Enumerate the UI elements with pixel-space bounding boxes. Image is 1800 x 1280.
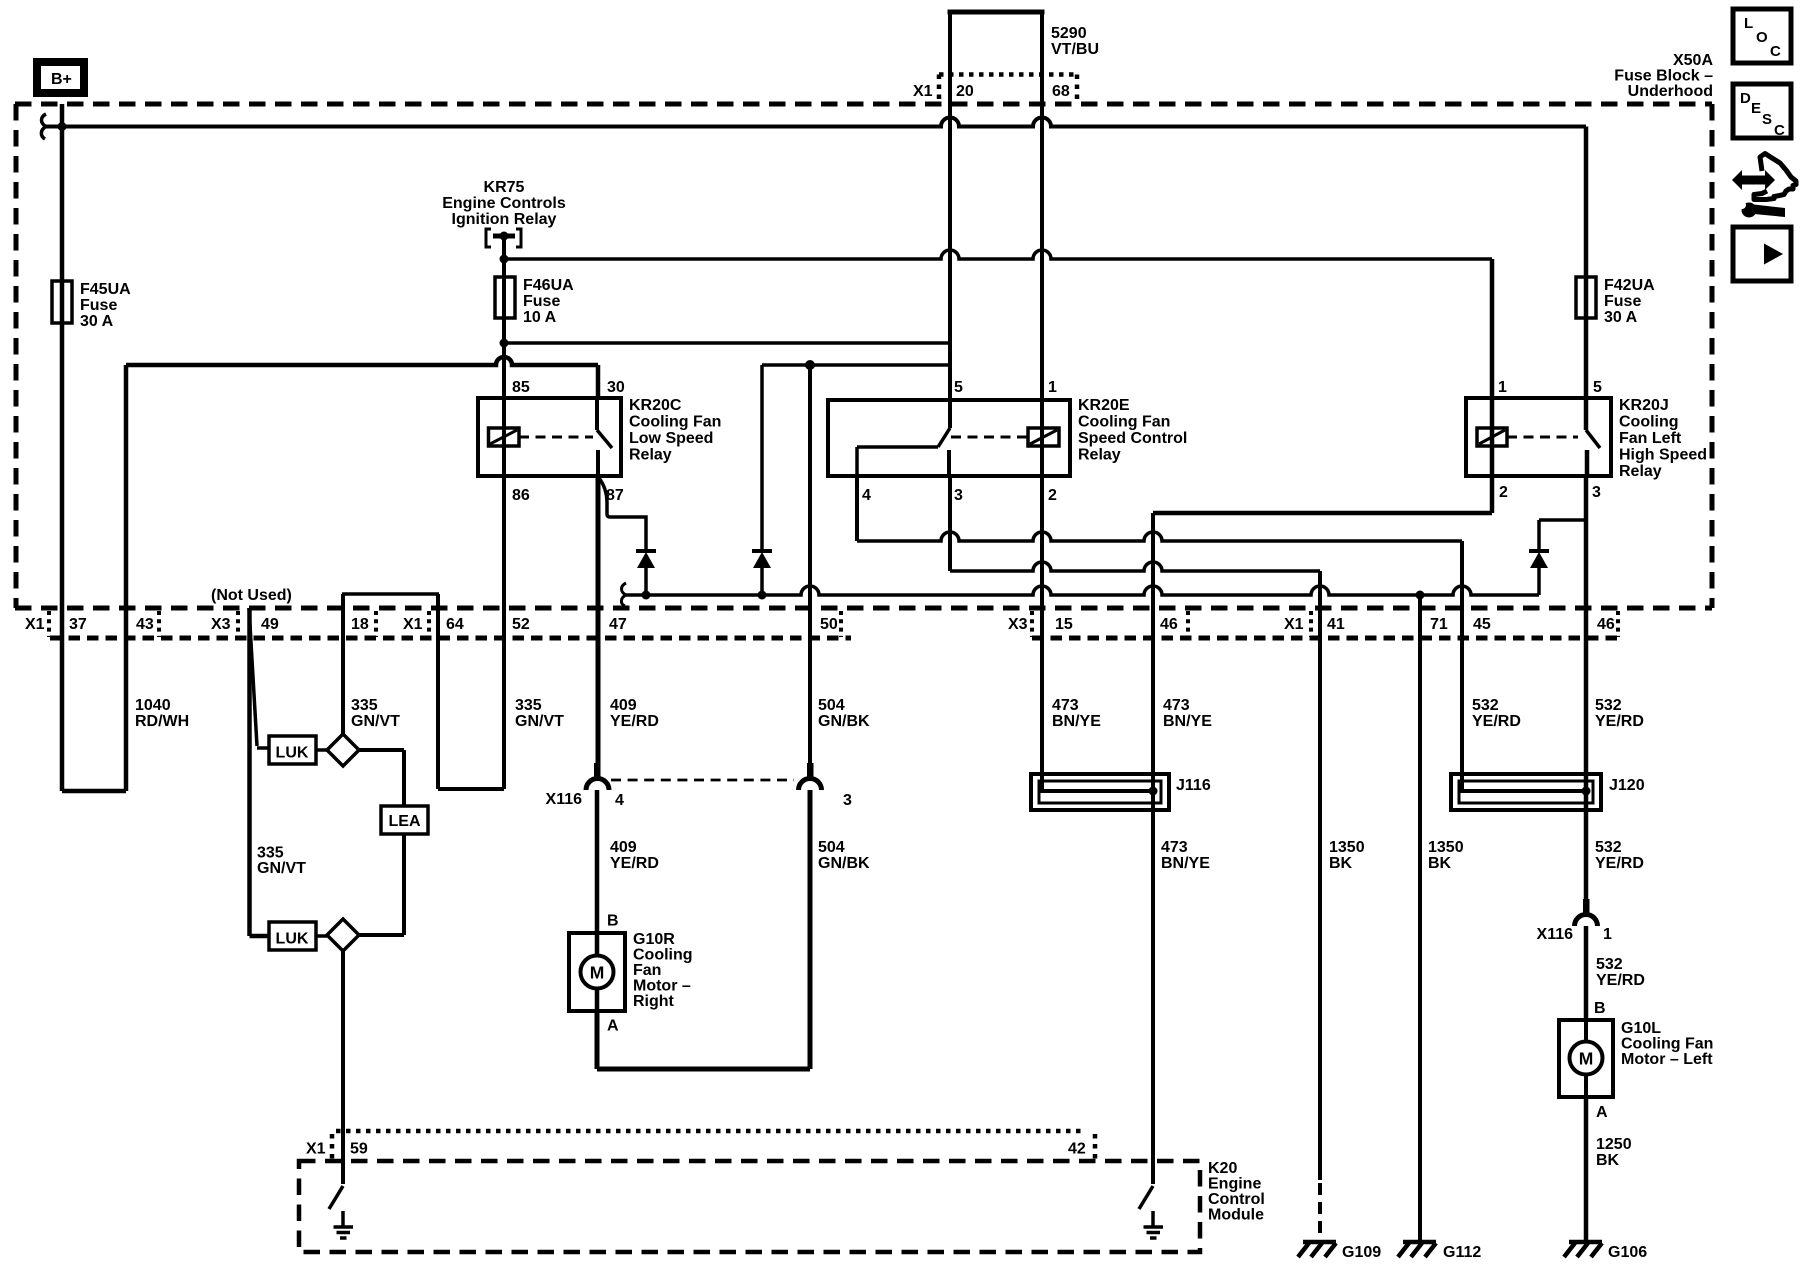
svg-text:473: 473 bbox=[1163, 697, 1190, 714]
svg-text:S: S bbox=[1762, 111, 1772, 128]
svg-text:KR20J: KR20J bbox=[1619, 397, 1669, 414]
svg-text:K20: K20 bbox=[1208, 1160, 1237, 1177]
svg-text:30: 30 bbox=[607, 379, 625, 396]
svg-text:49: 49 bbox=[261, 616, 279, 633]
svg-text:X50A: X50A bbox=[1673, 52, 1713, 69]
svg-text:X1: X1 bbox=[403, 616, 423, 633]
svg-text:45: 45 bbox=[1473, 616, 1491, 633]
svg-text:68: 68 bbox=[1052, 83, 1070, 100]
svg-text:18: 18 bbox=[351, 616, 369, 633]
svg-text:1: 1 bbox=[1498, 379, 1507, 396]
svg-text:Fan Left: Fan Left bbox=[1619, 430, 1682, 447]
svg-text:RD/WH: RD/WH bbox=[135, 713, 189, 730]
svg-text:LUK: LUK bbox=[276, 931, 309, 948]
svg-text:87: 87 bbox=[606, 487, 624, 504]
svg-text:GN/VT: GN/VT bbox=[257, 860, 306, 877]
svg-text:BK: BK bbox=[1596, 1152, 1620, 1169]
svg-text:71: 71 bbox=[1430, 616, 1448, 633]
svg-text:D: D bbox=[1740, 90, 1751, 107]
svg-text:Motor – Left: Motor – Left bbox=[1621, 1051, 1713, 1068]
svg-text:50: 50 bbox=[820, 616, 838, 633]
svg-text:YE/RD: YE/RD bbox=[610, 855, 659, 872]
svg-text:BN/YE: BN/YE bbox=[1163, 713, 1212, 730]
svg-text:532: 532 bbox=[1596, 956, 1623, 973]
svg-text:46: 46 bbox=[1160, 616, 1178, 633]
svg-text:B: B bbox=[607, 913, 619, 930]
svg-text:B: B bbox=[1594, 1000, 1606, 1017]
svg-text:GN/BK: GN/BK bbox=[818, 713, 870, 730]
svg-text:409: 409 bbox=[610, 839, 637, 856]
svg-text:30 A: 30 A bbox=[80, 313, 114, 330]
svg-text:335: 335 bbox=[351, 697, 378, 714]
svg-text:Low Speed: Low Speed bbox=[629, 430, 713, 447]
svg-text:X1: X1 bbox=[25, 616, 45, 633]
svg-text:335: 335 bbox=[515, 697, 542, 714]
svg-text:M: M bbox=[590, 963, 605, 983]
svg-text:532: 532 bbox=[1595, 697, 1622, 714]
svg-text:F46UA: F46UA bbox=[523, 277, 574, 294]
svg-text:BN/YE: BN/YE bbox=[1161, 855, 1210, 872]
svg-text:1350: 1350 bbox=[1428, 839, 1464, 856]
svg-text:KR75: KR75 bbox=[484, 179, 525, 196]
svg-text:KR20E: KR20E bbox=[1078, 397, 1130, 414]
svg-text:41: 41 bbox=[1327, 616, 1345, 633]
svg-text:LUK: LUK bbox=[276, 745, 309, 762]
svg-text:Ignition Relay: Ignition Relay bbox=[452, 211, 557, 228]
svg-text:(Not Used): (Not Used) bbox=[211, 587, 292, 604]
svg-text:Underhood: Underhood bbox=[1628, 83, 1713, 100]
svg-text:59: 59 bbox=[350, 1141, 368, 1158]
svg-text:Fuse: Fuse bbox=[80, 297, 117, 314]
svg-text:YE/RD: YE/RD bbox=[1596, 972, 1645, 989]
svg-text:X116: X116 bbox=[1537, 926, 1574, 943]
svg-text:1250: 1250 bbox=[1596, 1136, 1632, 1153]
svg-text:C: C bbox=[1770, 43, 1781, 60]
svg-text:BN/YE: BN/YE bbox=[1052, 713, 1101, 730]
svg-text:52: 52 bbox=[512, 616, 530, 633]
svg-text:2: 2 bbox=[1499, 484, 1508, 501]
svg-text:F45UA: F45UA bbox=[80, 281, 131, 298]
svg-text:L: L bbox=[1744, 15, 1753, 32]
svg-text:64: 64 bbox=[446, 616, 464, 633]
svg-text:YE/RD: YE/RD bbox=[610, 713, 659, 730]
svg-text:Cooling: Cooling bbox=[633, 947, 693, 964]
svg-text:M: M bbox=[1579, 1049, 1594, 1069]
svg-text:High Speed: High Speed bbox=[1619, 447, 1707, 464]
svg-text:Relay: Relay bbox=[1619, 463, 1662, 480]
svg-text:VT/BU: VT/BU bbox=[1051, 41, 1099, 58]
svg-text:5: 5 bbox=[954, 379, 963, 396]
svg-text:G109: G109 bbox=[1342, 1244, 1381, 1261]
svg-text:Cooling Fan: Cooling Fan bbox=[1078, 414, 1170, 431]
svg-text:86: 86 bbox=[512, 487, 530, 504]
svg-text:15: 15 bbox=[1055, 616, 1073, 633]
svg-text:A: A bbox=[1596, 1104, 1608, 1121]
svg-text:4: 4 bbox=[615, 792, 624, 809]
svg-text:GN/BK: GN/BK bbox=[818, 855, 870, 872]
svg-text:335: 335 bbox=[257, 845, 284, 862]
svg-text:1: 1 bbox=[1048, 379, 1057, 396]
svg-text:A: A bbox=[607, 1018, 619, 1035]
svg-text:47: 47 bbox=[609, 616, 627, 633]
svg-text:Cooling Fan: Cooling Fan bbox=[629, 414, 721, 431]
svg-text:G112: G112 bbox=[1443, 1244, 1481, 1261]
svg-text:Speed Control: Speed Control bbox=[1078, 430, 1187, 447]
svg-text:1: 1 bbox=[1603, 926, 1612, 943]
svg-text:Fan: Fan bbox=[633, 962, 661, 979]
svg-text:409: 409 bbox=[610, 697, 637, 714]
svg-text:504: 504 bbox=[818, 839, 845, 856]
svg-text:X1: X1 bbox=[913, 83, 933, 100]
svg-text:F42UA: F42UA bbox=[1604, 277, 1655, 294]
svg-text:Fuse: Fuse bbox=[1604, 293, 1641, 310]
svg-text:G10L: G10L bbox=[1621, 1020, 1661, 1037]
svg-text:G106: G106 bbox=[1608, 1244, 1647, 1261]
svg-text:42: 42 bbox=[1068, 1141, 1086, 1158]
svg-text:GN/VT: GN/VT bbox=[351, 713, 400, 730]
svg-text:46: 46 bbox=[1597, 616, 1615, 633]
svg-text:Module: Module bbox=[1208, 1207, 1264, 1224]
svg-text:85: 85 bbox=[512, 379, 530, 396]
svg-text:2: 2 bbox=[1048, 487, 1057, 504]
svg-text:O: O bbox=[1756, 29, 1768, 46]
svg-text:3: 3 bbox=[954, 487, 963, 504]
svg-text:BK: BK bbox=[1428, 855, 1452, 872]
svg-text:Engine: Engine bbox=[1208, 1176, 1261, 1193]
svg-text:J116: J116 bbox=[1176, 777, 1211, 794]
svg-text:Cooling Fan: Cooling Fan bbox=[1621, 1036, 1713, 1053]
svg-text:KR20C: KR20C bbox=[629, 397, 682, 414]
svg-text:10 A: 10 A bbox=[523, 309, 557, 326]
svg-text:5: 5 bbox=[1593, 379, 1602, 396]
svg-text:37: 37 bbox=[69, 616, 87, 633]
svg-text:Engine Controls: Engine Controls bbox=[442, 195, 566, 212]
svg-text:Control: Control bbox=[1208, 1191, 1265, 1208]
svg-text:X3: X3 bbox=[211, 616, 231, 633]
svg-text:X116: X116 bbox=[546, 791, 583, 808]
svg-text:473: 473 bbox=[1052, 697, 1079, 714]
svg-text:Fuse Block –: Fuse Block – bbox=[1614, 68, 1713, 85]
svg-text:5290: 5290 bbox=[1051, 25, 1087, 42]
svg-text:473: 473 bbox=[1161, 839, 1188, 856]
svg-text:43: 43 bbox=[136, 616, 154, 633]
svg-text:30 A: 30 A bbox=[1604, 309, 1638, 326]
svg-text:Cooling: Cooling bbox=[1619, 414, 1679, 431]
svg-text:3: 3 bbox=[1592, 484, 1601, 501]
svg-text:G10R: G10R bbox=[633, 931, 675, 948]
svg-text:Relay: Relay bbox=[629, 447, 672, 464]
svg-text:20: 20 bbox=[956, 83, 974, 100]
svg-text:4: 4 bbox=[862, 487, 871, 504]
svg-text:BK: BK bbox=[1329, 855, 1353, 872]
svg-text:Relay: Relay bbox=[1078, 447, 1121, 464]
svg-text:X3: X3 bbox=[1008, 616, 1028, 633]
svg-text:YE/RD: YE/RD bbox=[1472, 713, 1521, 730]
svg-text:E: E bbox=[1751, 100, 1761, 117]
svg-text:LEA: LEA bbox=[389, 813, 421, 830]
svg-text:GN/VT: GN/VT bbox=[515, 713, 564, 730]
svg-text:J120: J120 bbox=[1609, 777, 1645, 794]
svg-text:532: 532 bbox=[1595, 839, 1622, 856]
svg-text:Fuse: Fuse bbox=[523, 293, 560, 310]
svg-text:504: 504 bbox=[818, 697, 845, 714]
svg-text:B+: B+ bbox=[51, 71, 72, 88]
svg-text:1040: 1040 bbox=[135, 697, 171, 714]
svg-text:YE/RD: YE/RD bbox=[1595, 713, 1644, 730]
svg-text:532: 532 bbox=[1472, 697, 1499, 714]
svg-text:YE/RD: YE/RD bbox=[1595, 855, 1644, 872]
svg-text:Right: Right bbox=[633, 993, 675, 1010]
svg-text:3: 3 bbox=[843, 792, 852, 809]
svg-text:X1: X1 bbox=[1284, 616, 1304, 633]
svg-text:1350: 1350 bbox=[1329, 839, 1365, 856]
svg-text:C: C bbox=[1774, 122, 1785, 139]
svg-text:Motor –: Motor – bbox=[633, 978, 691, 995]
svg-text:X1: X1 bbox=[306, 1141, 326, 1158]
